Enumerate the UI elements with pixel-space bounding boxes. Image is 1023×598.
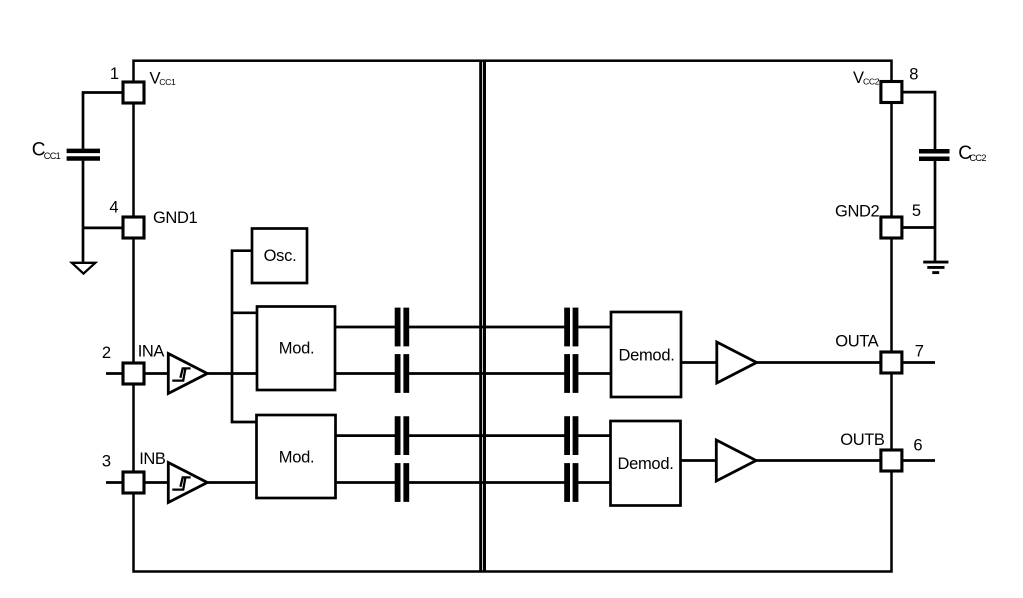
ground symbol GND2 bar 3 bbox=[932, 271, 939, 274]
coupling capacitor A2b right plate bbox=[573, 354, 579, 393]
wire channel A2 Mod to cap bbox=[334, 372, 395, 375]
pin 4 square bbox=[123, 217, 144, 238]
input buffer A (schmitt trigger) bbox=[168, 354, 207, 394]
ground symbol GND2 bar 1 bbox=[923, 261, 948, 264]
wire pin1 to CCC1 branch bbox=[83, 93, 124, 149]
wire CCC2 bottom vertical bbox=[934, 161, 937, 228]
coupling capacitor A2 right plate bbox=[403, 354, 409, 393]
schmitt symbol A bbox=[172, 368, 190, 380]
wire output stub pin7 bbox=[901, 361, 935, 364]
wire Demod B to buffer bbox=[680, 459, 718, 462]
pin 3 square bbox=[123, 472, 144, 493]
wire channel B2 Mod to cap bbox=[334, 481, 395, 484]
wire channel A1 cap to Demod bbox=[578, 326, 612, 329]
wire channel A1 Mod to cap bbox=[334, 326, 395, 329]
wire buffer A to pin7 bbox=[756, 361, 882, 364]
wire channel B2 across barrier bbox=[409, 481, 565, 484]
coupling capacitor B2b right plate bbox=[573, 463, 579, 502]
modulator block Mod A bbox=[257, 307, 335, 391]
coupling capacitor B1b right plate bbox=[573, 416, 579, 455]
svg-text:Mod.: Mod. bbox=[279, 448, 314, 466]
modulator block Mod B bbox=[257, 415, 336, 498]
wire junction to ground GND1 bbox=[82, 228, 85, 263]
isolation barrier line left bbox=[479, 61, 482, 572]
coupling capacitor A1b right plate bbox=[573, 308, 579, 347]
svg-text:CC1: CC1 bbox=[159, 77, 176, 87]
pin 8 square bbox=[881, 82, 902, 103]
wire channel B1 Mod to cap bbox=[334, 434, 395, 437]
ground symbol GND1 (open triangle) bbox=[72, 263, 96, 274]
demodulator block Demod A bbox=[611, 312, 681, 397]
wire bus to Mod A bbox=[232, 311, 258, 314]
capacitor CCC1 top plate bbox=[67, 149, 100, 154]
coupling capacitor B1 left plate bbox=[395, 416, 401, 455]
capacitor CCC2 bottom plate bbox=[919, 156, 950, 161]
isolation barrier line right bbox=[483, 61, 486, 572]
schmitt symbol B bbox=[172, 477, 190, 489]
capacitor CCC1 bottom plate bbox=[67, 156, 100, 161]
wire junction to pin5 bbox=[901, 226, 935, 229]
capacitor CCC2 top plate bbox=[919, 149, 950, 154]
wire pin8 to CCC2 branch bbox=[901, 92, 935, 149]
output buffer A bbox=[717, 342, 757, 383]
svg-text:CC1: CC1 bbox=[44, 151, 61, 161]
wire channel B1 cap to Demod bbox=[578, 434, 611, 437]
wire channel A2 across barrier bbox=[409, 372, 565, 375]
pin 6 square bbox=[881, 450, 902, 471]
pin 2 square bbox=[123, 363, 144, 384]
svg-text:5: 5 bbox=[912, 202, 921, 220]
svg-text:4: 4 bbox=[109, 198, 118, 216]
svg-text:CC2: CC2 bbox=[970, 153, 987, 163]
coupling capacitor A1 left plate bbox=[395, 308, 401, 347]
ground symbol GND2 bar 2 bbox=[927, 266, 944, 269]
coupling capacitor B2 left plate bbox=[395, 463, 401, 502]
input buffer B (schmitt trigger) bbox=[168, 463, 207, 503]
coupling capacitor B1b left plate bbox=[564, 416, 570, 455]
oscillator block U-OSC bbox=[252, 229, 307, 284]
svg-text:CC2: CC2 bbox=[863, 76, 880, 86]
svg-text:OUTB: OUTB bbox=[840, 431, 885, 449]
svg-text:7: 7 bbox=[915, 343, 924, 361]
pin 5 square bbox=[881, 217, 902, 238]
svg-text:6: 6 bbox=[913, 437, 922, 455]
wire channel A2 cap to Demod bbox=[578, 372, 612, 375]
coupling capacitor A2b left plate bbox=[564, 354, 570, 393]
wire channel B1 across barrier bbox=[409, 434, 565, 437]
svg-text:3: 3 bbox=[102, 453, 111, 471]
wire Demod A to buffer bbox=[680, 361, 717, 364]
svg-text:GND2: GND2 bbox=[835, 203, 879, 221]
wire buffer B output to Mod B bbox=[207, 481, 259, 484]
wire output stub pin6 bbox=[901, 459, 935, 462]
coupling capacitor A2 left plate bbox=[395, 354, 401, 393]
svg-text:INB: INB bbox=[139, 450, 166, 468]
wire channel B2 cap to Demod bbox=[578, 481, 611, 484]
demodulator block Demod B bbox=[611, 421, 681, 506]
wire junction to pin4 bbox=[83, 227, 124, 230]
wire junction to ground GND2 bbox=[934, 228, 937, 261]
svg-text:Demod.: Demod. bbox=[619, 346, 675, 364]
pin 1 square bbox=[123, 82, 144, 103]
svg-text:INA: INA bbox=[138, 343, 165, 361]
coupling capacitor B2b left plate bbox=[564, 463, 570, 502]
IC package outline bbox=[134, 61, 892, 572]
svg-text:OUTA: OUTA bbox=[835, 332, 878, 350]
pin 7 square bbox=[881, 352, 902, 373]
wire buffer A output to Mod A bbox=[207, 372, 259, 375]
svg-text:8: 8 bbox=[909, 66, 918, 84]
coupling capacitor B1 right plate bbox=[403, 416, 409, 455]
wire oscillator bus bbox=[232, 251, 258, 422]
wire channel A1 across barrier bbox=[409, 326, 565, 329]
coupling capacitor B2 right plate bbox=[403, 463, 409, 502]
wire input stub pin3 bbox=[106, 481, 124, 484]
wire input stub pin2 bbox=[106, 372, 124, 375]
coupling capacitor A1b left plate bbox=[564, 308, 570, 347]
svg-text:1: 1 bbox=[110, 65, 119, 83]
wire pin2 to buffer A bbox=[143, 372, 169, 375]
coupling capacitor A1 right plate bbox=[403, 308, 409, 347]
svg-text:2: 2 bbox=[102, 344, 111, 362]
wire pin3 to buffer B bbox=[143, 481, 169, 484]
svg-text:Osc.: Osc. bbox=[264, 247, 297, 265]
output buffer B bbox=[716, 440, 756, 481]
svg-text:Mod.: Mod. bbox=[279, 340, 314, 358]
svg-text:Demod.: Demod. bbox=[618, 455, 674, 473]
wire buffer B to pin6 bbox=[756, 459, 882, 462]
wire CCC1 bottom vertical bbox=[82, 161, 85, 228]
svg-text:GND1: GND1 bbox=[153, 209, 197, 227]
